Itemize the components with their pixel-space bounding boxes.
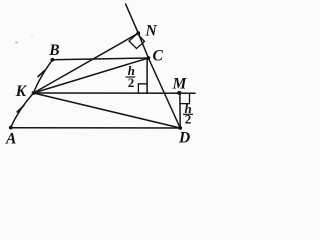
- altitude from C to KM line: [146, 59, 148, 94]
- segment KM extended: [34, 92, 196, 94]
- svg-text:K: K: [15, 83, 28, 100]
- svg-text:N: N: [145, 23, 158, 40]
- point K: [32, 91, 36, 95]
- point N: [136, 31, 140, 35]
- side CD: [148, 58, 180, 128]
- faint scan speck 2: [31, 34, 33, 36]
- point C: [147, 56, 151, 60]
- svg-text:D: D: [178, 130, 190, 147]
- point D: [178, 126, 182, 130]
- tick mark on AK: [17, 105, 25, 112]
- svg-text:M: M: [172, 76, 188, 93]
- point M: [177, 91, 181, 95]
- side AD: [11, 127, 180, 129]
- side BC: [52, 58, 148, 60]
- svg-text:A: A: [5, 131, 16, 148]
- svg-text:2: 2: [185, 111, 192, 126]
- faint scan speck: [15, 41, 18, 44]
- svg-text:C: C: [153, 48, 164, 65]
- svg-text:B: B: [48, 42, 59, 59]
- right angle mark at M: [180, 93, 189, 103]
- fraction bar near D: [183, 113, 193, 115]
- right angle mark at foot of C altitude: [138, 84, 147, 93]
- side AB through K: [11, 60, 53, 128]
- segment KC: [34, 58, 149, 93]
- point B: [51, 58, 55, 62]
- line DC extended above C through N to top: [126, 4, 149, 58]
- right angle mark at N (rotated square): [129, 34, 145, 49]
- tick mark on KB: [38, 70, 46, 77]
- fraction bar near C: [126, 76, 136, 78]
- segment KD: [34, 93, 181, 128]
- segment MD: [179, 93, 181, 128]
- segment KN: [34, 33, 139, 93]
- point A: [9, 126, 13, 130]
